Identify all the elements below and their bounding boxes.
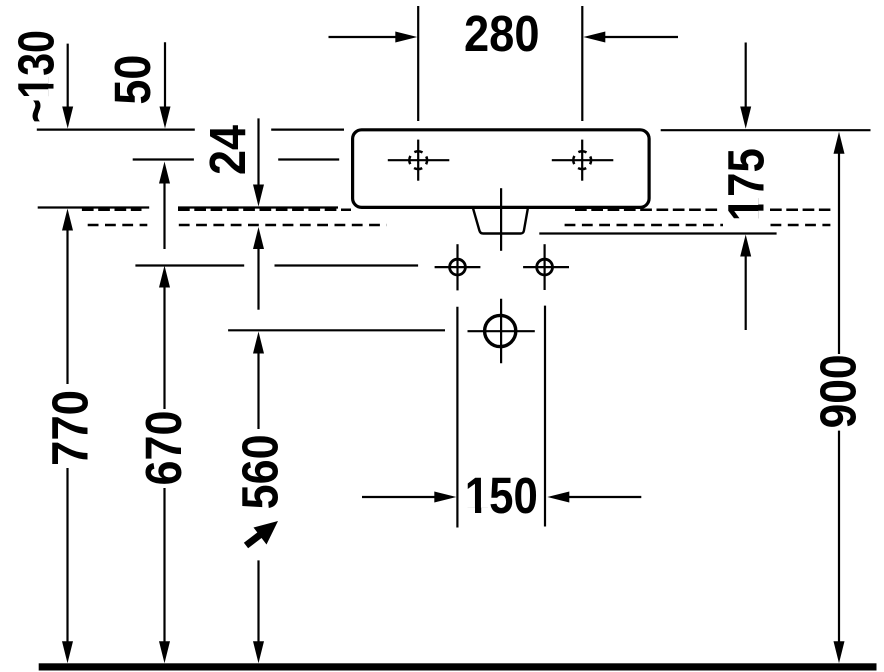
svg-text:900: 900 [810,354,867,428]
drain level line [228,329,445,331]
centerline through mounting holes [135,264,418,266]
dim 50 [104,42,171,249]
faucet hole right [552,140,614,181]
svg-text:~130: ~130 [8,30,65,123]
dim 150 [362,306,641,528]
dim 280 [329,5,679,121]
dim ~130 [8,30,74,129]
svg-text:670: 670 [135,411,192,486]
dim 175 [718,43,775,331]
lower reference line right (175 base) [539,232,776,234]
dim 770 [42,209,99,664]
dashed wall line row2 [88,224,831,227]
dim 900 [810,132,867,664]
dashed wall line row1 [82,208,831,211]
svg-text:150: 150 [465,467,538,524]
floor [39,663,877,670]
overflow outlet trapezoid [473,208,528,234]
svg-text:175: 175 [718,148,775,221]
svg-text:24: 24 [199,124,256,175]
washbasin outline [353,130,649,208]
svg-text:560: 560 [232,434,289,509]
svg-text:50: 50 [104,55,161,105]
mounting hole left [435,244,481,290]
mounting hole right [523,244,569,290]
drain hole [468,315,535,346]
faucet hole left [388,140,450,181]
rim reference line right [661,129,871,131]
shelf line left solid [38,206,338,208]
rim reference line left (line A) [37,129,344,131]
dim 560 [232,332,289,664]
serif masks for digit 1 [48,76,765,514]
dim 670 [135,266,192,664]
pointer arrow at 560 [246,521,278,546]
svg-text:770: 770 [42,390,99,466]
reference line B [133,158,340,160]
svg-text:280: 280 [464,5,540,62]
dim 24 [199,118,264,309]
drain centerline [500,188,502,363]
